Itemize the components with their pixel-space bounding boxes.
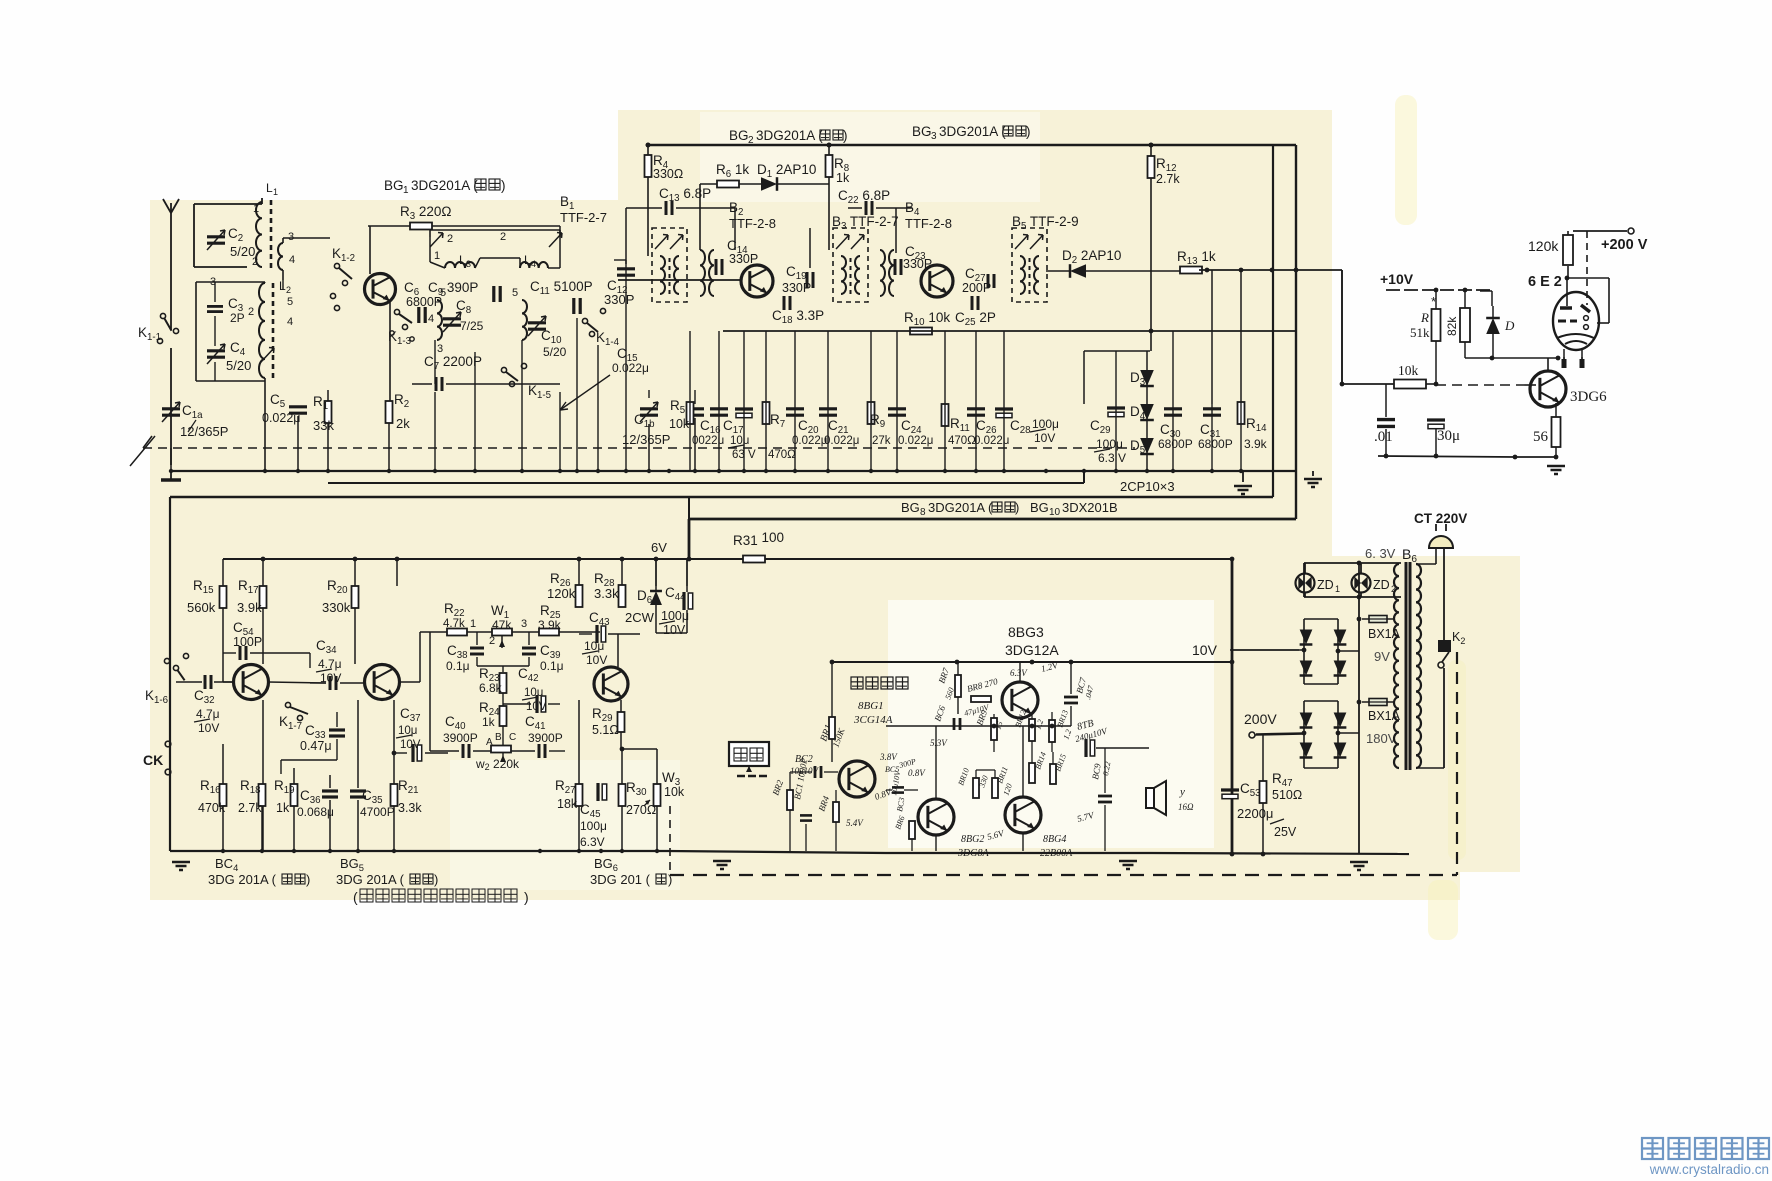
svg-text:330P: 330P	[604, 292, 634, 307]
svg-text:10V: 10V	[586, 653, 607, 667]
svg-text:33k: 33k	[313, 418, 334, 433]
svg-text:6.8k: 6.8k	[479, 681, 503, 695]
svg-text:51k: 51k	[1410, 325, 1430, 340]
svg-text:3DG 201 (: 3DG 201 (	[590, 872, 651, 887]
svg-text:12/365P: 12/365P	[180, 424, 228, 439]
svg-text:1: 1	[253, 203, 259, 215]
svg-text:4700P: 4700P	[360, 805, 395, 819]
svg-text:5.3V: 5.3V	[930, 738, 948, 748]
svg-text:): )	[306, 872, 310, 887]
svg-text:): )	[1026, 124, 1031, 139]
svg-text:0.022μ: 0.022μ	[792, 435, 827, 447]
svg-text:6 E 2: 6 E 2	[1528, 274, 1562, 290]
svg-text:0.1μ: 0.1μ	[540, 659, 564, 673]
svg-text:R: R	[1420, 310, 1429, 325]
svg-text:1: 1	[273, 187, 278, 197]
svg-text:0022μ: 0022μ	[692, 435, 724, 447]
svg-text:10V: 10V	[1034, 431, 1055, 445]
svg-text:3.9k: 3.9k	[538, 618, 562, 632]
svg-text:BG: BG	[912, 124, 932, 139]
svg-text:27k: 27k	[872, 435, 891, 447]
svg-text:6. 3V: 6. 3V	[1365, 546, 1396, 561]
svg-text:9V: 9V	[1374, 649, 1390, 664]
svg-text:330k: 330k	[322, 600, 351, 615]
svg-text:5: 5	[512, 287, 518, 299]
svg-text:ZD: ZD	[1373, 578, 1390, 592]
svg-text:30μ: 30μ	[1437, 428, 1460, 444]
svg-text:10k: 10k	[1398, 363, 1419, 378]
svg-text:3: 3	[288, 231, 294, 243]
svg-text:100μ: 100μ	[661, 609, 689, 623]
svg-text:330P: 330P	[782, 281, 811, 295]
svg-text:5.4V: 5.4V	[846, 818, 864, 828]
svg-text:3DG 201A (: 3DG 201A (	[208, 872, 277, 887]
svg-text:5/20: 5/20	[226, 358, 251, 373]
svg-text:0.022μ: 0.022μ	[262, 411, 300, 425]
svg-text:8: 8	[920, 507, 926, 518]
svg-text:120k: 120k	[547, 586, 576, 601]
svg-text:TTF-2-8: TTF-2-8	[905, 216, 952, 231]
svg-text:3900P: 3900P	[443, 731, 478, 745]
svg-text:y: y	[1179, 786, 1185, 798]
svg-text:0.47μ: 0.47μ	[300, 739, 332, 753]
svg-text:BG: BG	[729, 128, 749, 143]
svg-text:C: C	[509, 732, 516, 743]
svg-text:3: 3	[931, 131, 937, 142]
svg-text:3900P: 3900P	[528, 731, 563, 745]
svg-text:A: A	[486, 737, 493, 748]
svg-text:4: 4	[531, 259, 536, 269]
svg-text:1: 1	[403, 185, 409, 196]
svg-text:2.7k: 2.7k	[238, 801, 262, 815]
svg-text:5/20: 5/20	[543, 345, 567, 359]
svg-text:3: 3	[521, 618, 527, 630]
svg-text:): )	[843, 128, 848, 143]
svg-text:3DG8A: 3DG8A	[957, 848, 989, 859]
svg-text:1k: 1k	[482, 715, 496, 729]
svg-text:): )	[668, 872, 672, 887]
svg-text:1: 1	[470, 618, 476, 630]
svg-text:4: 4	[289, 254, 295, 266]
svg-text:200P: 200P	[962, 281, 991, 295]
svg-text:12/365P: 12/365P	[622, 432, 670, 447]
svg-text:10V: 10V	[526, 701, 547, 713]
svg-text:6.3 V: 6.3 V	[1098, 451, 1126, 465]
svg-text:10k: 10k	[664, 785, 685, 799]
svg-text:8BG3: 8BG3	[1008, 624, 1044, 640]
svg-text:3DG201A (: 3DG201A (	[928, 500, 993, 515]
svg-text:B: B	[495, 732, 502, 743]
svg-text:2: 2	[252, 256, 258, 268]
svg-text:2: 2	[248, 306, 254, 318]
svg-text:3DG201A (: 3DG201A (	[411, 178, 478, 193]
svg-text:1k: 1k	[276, 801, 290, 815]
svg-text:): )	[524, 889, 529, 905]
svg-text:6800P: 6800P	[1198, 437, 1233, 451]
svg-text:2CP10×3: 2CP10×3	[1120, 479, 1175, 494]
svg-text:100μ: 100μ	[580, 819, 607, 833]
svg-text:10: 10	[1049, 507, 1061, 518]
svg-text:470k: 470k	[198, 801, 226, 815]
svg-text:6.3V: 6.3V	[580, 835, 605, 849]
svg-text:3DG201A (: 3DG201A (	[939, 124, 1006, 139]
svg-text:3DG12A: 3DG12A	[1005, 642, 1059, 658]
svg-text:510Ω: 510Ω	[1272, 788, 1302, 802]
svg-text:BC5: BC5	[885, 765, 899, 774]
svg-text:L: L	[524, 253, 531, 267]
svg-text:47k: 47k	[492, 618, 512, 632]
svg-text:120k: 120k	[1528, 238, 1559, 254]
svg-text:): )	[434, 872, 438, 887]
svg-text:2200μ: 2200μ	[1237, 806, 1273, 821]
svg-text:2.7k: 2.7k	[1156, 172, 1180, 186]
svg-text:0.068μ: 0.068μ	[297, 805, 334, 819]
svg-text:6800P: 6800P	[1158, 437, 1193, 451]
svg-text:3DG 201A (: 3DG 201A (	[336, 872, 405, 887]
svg-text:2P: 2P	[230, 311, 245, 325]
svg-text:www.crystalradio.cn: www.crystalradio.cn	[1649, 1162, 1769, 1177]
svg-text:2CW: 2CW	[625, 610, 655, 625]
svg-text:D: D	[1504, 318, 1515, 333]
svg-text:BG: BG	[384, 178, 404, 193]
svg-text:10μ: 10μ	[584, 639, 604, 653]
svg-text:6V: 6V	[651, 540, 667, 555]
svg-text:18k: 18k	[557, 797, 578, 811]
svg-text:BG: BG	[1030, 500, 1049, 515]
svg-text:3: 3	[466, 259, 471, 269]
svg-text:BG: BG	[901, 500, 920, 515]
svg-text:0.8V: 0.8V	[908, 768, 926, 778]
svg-text:0.1μ: 0.1μ	[446, 659, 470, 673]
svg-text:63 V: 63 V	[732, 449, 756, 461]
svg-text:4: 4	[428, 313, 434, 325]
svg-text:1k: 1k	[836, 171, 850, 185]
svg-text:3DG201A (: 3DG201A (	[756, 128, 823, 143]
svg-text:3.3k: 3.3k	[398, 801, 422, 815]
svg-text:2: 2	[489, 635, 495, 647]
svg-text:270Ω: 270Ω	[626, 803, 656, 817]
svg-text:200V: 200V	[1244, 711, 1277, 727]
svg-text:TTF-2-7: TTF-2-7	[560, 210, 607, 225]
svg-text:2: 2	[286, 285, 291, 295]
svg-text:0.022μ: 0.022μ	[824, 435, 859, 447]
svg-text:(: (	[353, 889, 358, 905]
svg-text:6.3V: 6.3V	[1010, 668, 1028, 678]
svg-text:3CG14A: 3CG14A	[853, 714, 893, 726]
svg-text:+200 V: +200 V	[1601, 237, 1648, 253]
svg-text:10V: 10V	[198, 721, 219, 735]
svg-text:82k: 82k	[1445, 316, 1459, 336]
svg-text:8BG1: 8BG1	[858, 700, 884, 712]
svg-text:56: 56	[1533, 429, 1549, 445]
svg-text:3.9k: 3.9k	[237, 600, 262, 615]
svg-text:10V: 10V	[663, 623, 686, 637]
svg-text:L: L	[459, 253, 466, 267]
svg-text:0.022μ: 0.022μ	[612, 361, 649, 375]
svg-text:ZD: ZD	[1317, 578, 1334, 592]
svg-text:16Ω: 16Ω	[1178, 802, 1194, 812]
svg-text:4: 4	[287, 316, 293, 328]
svg-text:+10V: +10V	[1380, 271, 1414, 287]
svg-text:5: 5	[287, 296, 293, 308]
svg-text:8BG2: 8BG2	[961, 834, 984, 845]
svg-text:7/25: 7/25	[460, 319, 484, 333]
svg-text:.01: .01	[1374, 429, 1393, 445]
svg-text:2: 2	[748, 135, 754, 146]
svg-text:2: 2	[447, 233, 453, 245]
svg-text:0.022μ: 0.022μ	[898, 435, 933, 447]
svg-text:3.9k: 3.9k	[1244, 437, 1268, 451]
svg-text:25V: 25V	[1274, 825, 1297, 839]
svg-text:1: 1	[1335, 584, 1340, 594]
svg-text:TTF-2-8: TTF-2-8	[729, 216, 776, 231]
svg-text:1: 1	[434, 250, 440, 262]
svg-text:2k: 2k	[396, 416, 410, 431]
svg-text:330Ω: 330Ω	[653, 167, 683, 181]
svg-text:w2 220k: w2 220k	[475, 757, 520, 772]
svg-text:22B00A: 22B00A	[1040, 848, 1073, 859]
svg-text:470Ω: 470Ω	[768, 449, 796, 461]
svg-text:L: L	[266, 181, 273, 195]
svg-text:3DG6: 3DG6	[1570, 389, 1607, 405]
svg-text:470Ω: 470Ω	[948, 435, 976, 447]
svg-text:10k: 10k	[669, 417, 690, 431]
svg-text:2: 2	[500, 231, 506, 243]
svg-text:8BG4: 8BG4	[1043, 834, 1066, 845]
svg-text:): )	[1015, 500, 1019, 515]
svg-text:4.7k: 4.7k	[443, 618, 465, 630]
svg-text:3.8V: 3.8V	[879, 752, 898, 762]
svg-text:5.1Ω: 5.1Ω	[592, 723, 619, 737]
svg-text:CK: CK	[143, 752, 163, 768]
svg-text:): )	[501, 178, 506, 193]
svg-text:3DX201B: 3DX201B	[1062, 500, 1118, 515]
svg-text:100P: 100P	[233, 635, 262, 649]
svg-text:6800P: 6800P	[406, 295, 442, 309]
svg-text:CT 220V: CT 220V	[1414, 511, 1467, 526]
svg-text:560k: 560k	[187, 600, 216, 615]
svg-text:10V: 10V	[400, 739, 421, 751]
svg-text:3.3k: 3.3k	[594, 586, 619, 601]
svg-text:10V: 10V	[1192, 642, 1218, 658]
svg-text:180V: 180V	[1366, 731, 1397, 746]
